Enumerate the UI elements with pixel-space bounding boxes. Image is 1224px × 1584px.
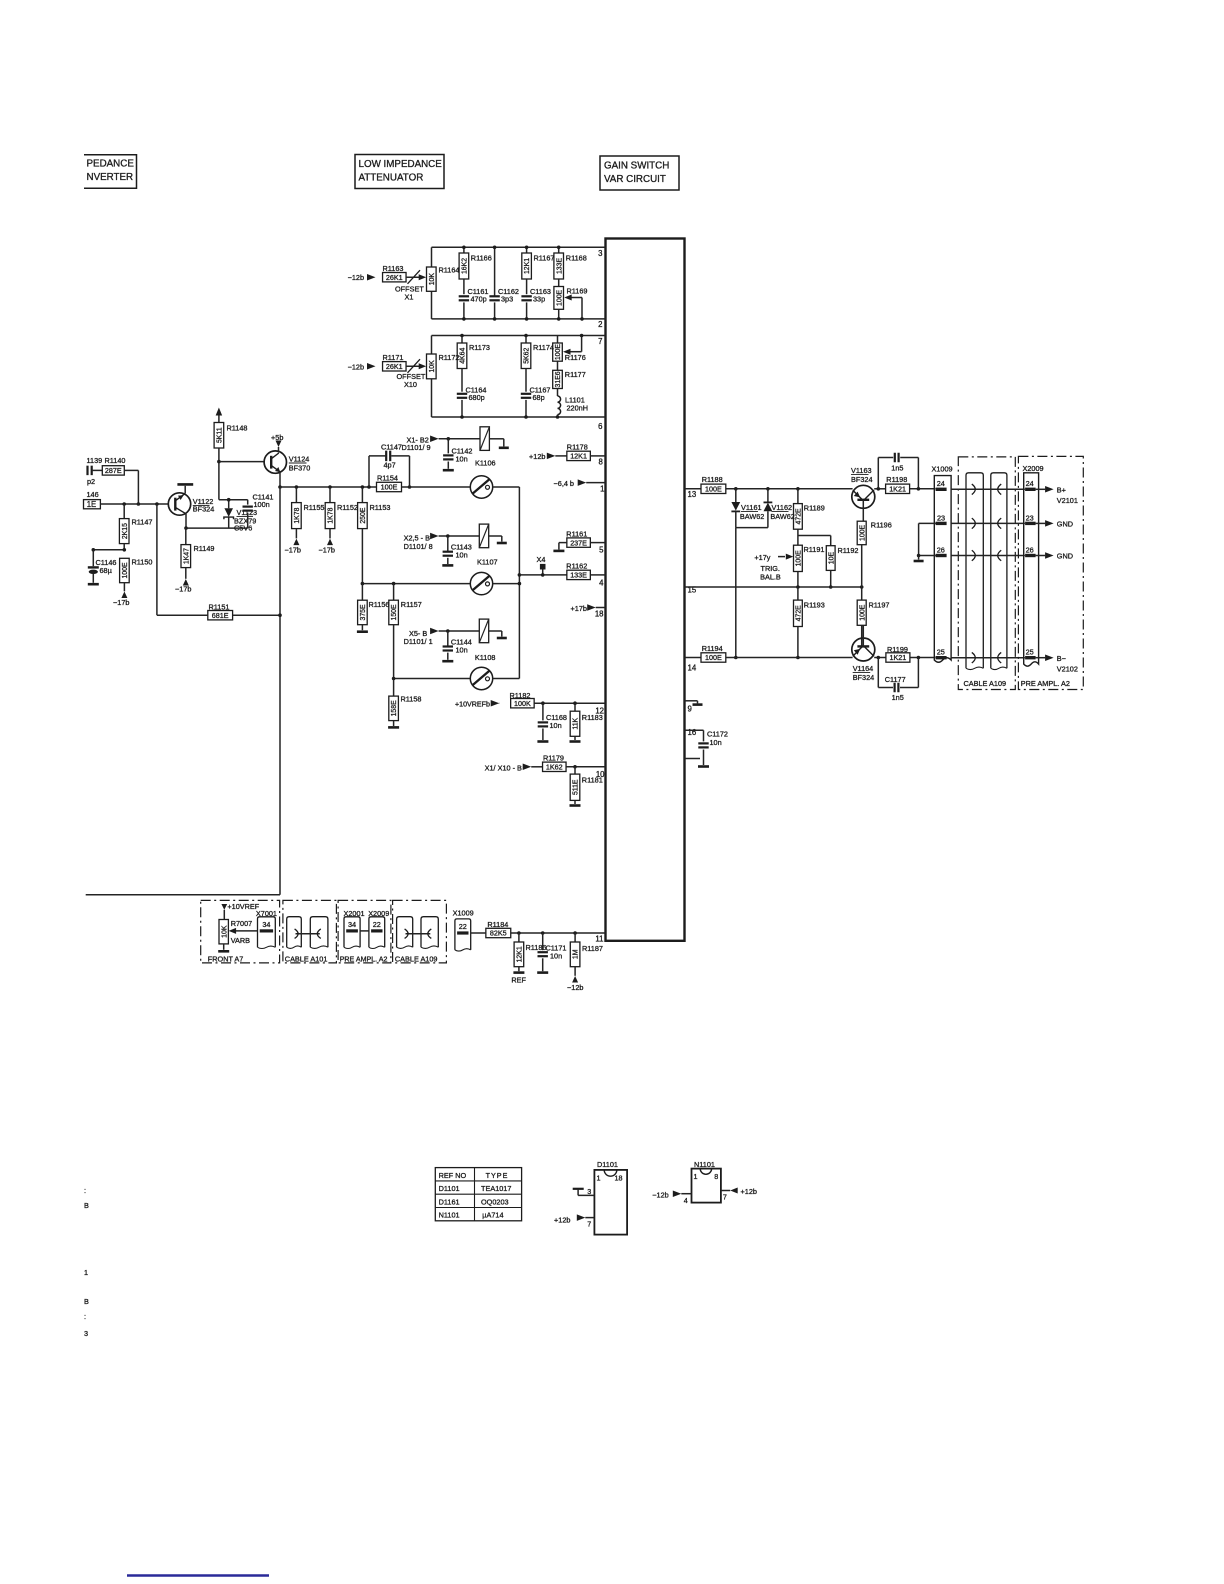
resistor R1140	[102, 466, 124, 475]
svg-text:V2102: V2102	[1057, 664, 1078, 673]
svg-text:5: 5	[599, 546, 604, 555]
svg-text:N1101: N1101	[694, 1160, 715, 1169]
svg-text:R1173: R1173	[469, 343, 490, 352]
resistor R1166	[463, 247, 465, 253]
svg-text:10n: 10n	[550, 721, 562, 730]
svg-text:25: 25	[937, 648, 945, 657]
svg-text:3p3: 3p3	[501, 295, 513, 304]
wire V1163 collector to X1009/24	[874, 488, 885, 490]
svg-text:R1157: R1157	[401, 600, 422, 609]
cable A109 tube right (bottom)	[421, 917, 438, 948]
svg-text:D1101/ 9: D1101/ 9	[402, 443, 431, 452]
wire R1157 row to switch3	[394, 678, 471, 680]
wire cable A101 link	[296, 933, 320, 935]
svg-text:R1164: R1164	[439, 266, 460, 275]
pre ampl A2 dash-dot box (bottom)	[338, 900, 391, 963]
svg-text:PRE AMPL. A2: PRE AMPL. A2	[340, 955, 388, 963]
svg-text:PEDANCE: PEDANCE	[87, 159, 135, 170]
capacitor C1164	[461, 369, 463, 392]
resistor R1191 TRIG BAL	[794, 545, 803, 571]
svg-text:82K5: 82K5	[490, 929, 507, 938]
svg-text:10K: 10K	[221, 925, 228, 938]
capacitor p2 (clipped)	[86, 466, 88, 476]
pin 7 N1101 +12b	[721, 1190, 730, 1192]
svg-text:D1101: D1101	[439, 1184, 460, 1193]
supply -17b below R1150	[121, 592, 127, 599]
resistor R1164	[427, 267, 437, 291]
svg-text:22: 22	[373, 920, 381, 929]
svg-text:237E: 237E	[570, 538, 587, 547]
svg-text:R1188: R1188	[702, 475, 723, 484]
supply -17b below R1149	[183, 579, 189, 586]
svg-text:NVERTER: NVERTER	[87, 172, 134, 183]
svg-text:R1167: R1167	[534, 254, 555, 263]
svg-text:V1164: V1164	[853, 664, 874, 673]
wire R1153 bottom row to switch2	[362, 583, 470, 585]
svg-text:X1009: X1009	[932, 464, 953, 473]
resistor R1196	[857, 521, 866, 545]
svg-text:N1101: N1101	[439, 1211, 460, 1220]
wire switch3 to right vertical	[493, 678, 520, 680]
wire R1188 to V1163 emitter	[726, 488, 853, 490]
cable tube left	[966, 473, 983, 669]
cable tube right	[991, 473, 1007, 669]
svg-text:+12b: +12b	[529, 452, 545, 461]
svg-text:680p: 680p	[469, 393, 485, 402]
svg-text:18: 18	[615, 1174, 623, 1183]
svg-text:100E: 100E	[705, 653, 722, 662]
capacitor C1167	[525, 369, 527, 392]
svg-text:14: 14	[688, 664, 697, 673]
svg-text:250E: 250E	[360, 507, 367, 523]
wire left vertical X10 network	[431, 336, 433, 355]
svg-text:220nH: 220nH	[567, 404, 589, 413]
svg-text:11: 11	[595, 935, 603, 944]
capacitor C1172 at pin 16	[685, 729, 704, 731]
svg-text:R1156: R1156	[369, 600, 390, 609]
wire cable row 23	[951, 522, 1025, 524]
wire rail to pin 6	[432, 416, 606, 418]
wire cable row 26	[951, 555, 1025, 557]
svg-text:12K1: 12K1	[524, 258, 531, 274]
svg-text:R1169: R1169	[567, 287, 588, 296]
svg-text:X10: X10	[404, 380, 417, 389]
svg-text:R1149: R1149	[194, 544, 215, 553]
svg-text:R1178: R1178	[567, 443, 588, 452]
svg-text:D1101: D1101	[597, 1160, 618, 1169]
svg-text:R1196: R1196	[871, 521, 892, 530]
svg-text:X1/ X10 - B: X1/ X10 - B	[485, 764, 522, 773]
svg-text:10E: 10E	[828, 552, 835, 565]
svg-text:R1183: R1183	[582, 713, 603, 722]
svg-text:X1009: X1009	[453, 908, 474, 917]
svg-text:+12b: +12b	[554, 1215, 570, 1224]
resistor R1197	[861, 587, 863, 600]
reference table REF NO / TYPE	[435, 1168, 521, 1221]
svg-text:1E: 1E	[87, 500, 97, 509]
svg-text:−6,4 b: −6,4 b	[554, 479, 575, 488]
capacitor C1141	[247, 500, 249, 505]
resistor R1169 with adjust arrow	[558, 279, 560, 287]
svg-text:287E: 287E	[105, 466, 122, 475]
svg-text:3: 3	[587, 1187, 591, 1196]
svg-text:V1163: V1163	[851, 466, 872, 475]
svg-text:R1176: R1176	[565, 353, 586, 362]
svg-text:13: 13	[688, 490, 697, 499]
svg-text:R1194: R1194	[702, 644, 723, 653]
svg-text:1K78: 1K78	[294, 507, 301, 523]
svg-text:BAL.B: BAL.B	[760, 572, 781, 581]
resistor R1173	[461, 336, 463, 344]
svg-text:8: 8	[598, 458, 602, 467]
resistor R1158	[393, 679, 395, 697]
svg-text:100E: 100E	[796, 550, 803, 566]
capacitor C1162	[494, 247, 496, 296]
svg-text:9: 9	[688, 705, 692, 714]
svg-text:34: 34	[262, 920, 270, 929]
resistor R1147	[123, 504, 125, 519]
svg-text:472E: 472E	[796, 508, 803, 524]
svg-text:100E: 100E	[859, 604, 866, 620]
svg-text:BF324: BF324	[851, 475, 873, 484]
supply +10VREF in front A7	[221, 904, 227, 910]
svg-text:BAW62: BAW62	[770, 512, 794, 521]
resistor R1150	[120, 558, 130, 582]
label box: GAIN SWITCH VAR CIRCUIT	[600, 156, 679, 190]
svg-text:BF324: BF324	[853, 673, 875, 682]
cable A101 tube left	[287, 917, 302, 948]
supply arrow above R1148	[216, 408, 223, 416]
relay coil K1108	[479, 619, 488, 643]
svg-text:23: 23	[937, 513, 945, 522]
capacitor C1161	[463, 279, 465, 294]
resistor R1189	[797, 489, 799, 504]
resistor R1181	[574, 767, 576, 774]
svg-text:VARB: VARB	[231, 936, 250, 945]
svg-text:R1161: R1161	[566, 529, 587, 538]
svg-text:16K2: 16K2	[462, 258, 469, 274]
svg-text:−17b: −17b	[319, 546, 335, 555]
wire R1189 bottom split to R1192	[798, 535, 831, 537]
wire pins 23-26 ground bracket	[919, 522, 936, 524]
svg-text:R1166: R1166	[471, 254, 492, 263]
svg-text:12K1: 12K1	[570, 452, 587, 461]
wire left vertical X1 network	[431, 247, 433, 267]
svg-text:1: 1	[84, 1268, 88, 1277]
svg-text:K1106: K1106	[475, 458, 496, 467]
wire V1122 emitter row	[185, 514, 187, 528]
relay coil K1106	[480, 427, 489, 451]
svg-text:BF370: BF370	[289, 464, 311, 473]
svg-text:PRE AMPL. A2: PRE AMPL. A2	[1021, 679, 1070, 688]
resistor R1167	[526, 247, 528, 253]
cable A101 tube right	[310, 917, 328, 948]
svg-text:1: 1	[694, 1172, 698, 1181]
svg-text:CABLE A101: CABLE A101	[285, 954, 328, 963]
resistor R1157	[393, 584, 395, 601]
svg-text:100n: 100n	[254, 500, 270, 509]
svg-text:681E: 681E	[212, 611, 229, 620]
svg-text:11K: 11K	[573, 717, 580, 729]
switch contact K1108	[470, 667, 492, 689]
svg-text:TEA1017: TEA1017	[481, 1184, 511, 1193]
svg-text:31E6: 31E6	[555, 371, 562, 387]
svg-text:1: 1	[597, 1174, 601, 1183]
svg-text:22: 22	[459, 922, 467, 931]
resistor R1186	[518, 933, 520, 942]
diode V1162	[767, 489, 769, 503]
svg-text:R1197: R1197	[869, 600, 890, 609]
resistor R1152	[328, 485, 332, 489]
svg-text:18: 18	[595, 610, 604, 619]
diode V1161	[735, 489, 737, 502]
svg-text:+17y: +17y	[754, 553, 770, 562]
svg-text:R1172: R1172	[439, 353, 460, 362]
svg-text:TYPE: TYPE	[486, 1171, 509, 1180]
svg-text:B: B	[84, 1201, 89, 1210]
svg-text:R1147: R1147	[132, 518, 153, 527]
svg-text:100E: 100E	[555, 344, 562, 360]
svg-text:12K1: 12K1	[517, 946, 524, 962]
potentiometer R7007 VARB	[219, 920, 228, 944]
svg-text:REF NO: REF NO	[439, 1171, 467, 1180]
svg-text:K1107: K1107	[477, 558, 498, 567]
capacitor C1144	[447, 631, 449, 646]
resistor R1193	[797, 587, 799, 600]
front A7 dash-dot box	[201, 900, 280, 963]
wire switch2 to right vertical	[493, 583, 520, 585]
transistor V1122	[168, 493, 190, 515]
svg-text:CABLE A109: CABLE A109	[964, 679, 1007, 688]
wire V1124 emitter to main row	[279, 472, 281, 487]
svg-text:C1177: C1177	[885, 675, 906, 684]
svg-text:p2: p2	[87, 477, 95, 486]
svg-text:68p: 68p	[533, 393, 545, 402]
svg-text:375E: 375E	[360, 604, 367, 620]
svg-text:+12b: +12b	[741, 1187, 757, 1196]
cable A109 dash-dot box (bottom)	[393, 900, 447, 963]
svg-text:100E: 100E	[556, 289, 563, 305]
wire R1154 to switch K1106 contact	[402, 486, 471, 488]
wire rail to pin 2	[432, 318, 606, 320]
capacitor C1142	[447, 439, 449, 454]
svg-text:OQ0203: OQ0203	[481, 1197, 509, 1206]
svg-text:B: B	[84, 1297, 89, 1306]
svg-text:10n: 10n	[456, 646, 468, 655]
svg-text:24: 24	[937, 479, 945, 488]
svg-text:R1163: R1163	[383, 264, 404, 273]
wire R1163 to R1164 with preset arrow	[406, 276, 423, 278]
wire input to V1122 base	[100, 503, 168, 505]
svg-text:R1153: R1153	[370, 503, 391, 512]
wire main row y487	[280, 486, 377, 488]
svg-text:R1177: R1177	[565, 370, 586, 379]
svg-text:GND: GND	[1057, 520, 1073, 529]
wire pin 15 row	[685, 586, 862, 588]
svg-text:R1174: R1174	[533, 343, 554, 352]
svg-text:7: 7	[587, 1220, 591, 1229]
svg-text:1K62: 1K62	[546, 763, 563, 772]
resistor R1156	[361, 584, 363, 601]
svg-text:4p7: 4p7	[384, 460, 396, 469]
wire R1182 to pin 12	[534, 702, 605, 704]
svg-text:−17b: −17b	[113, 598, 129, 607]
svg-text:2: 2	[598, 320, 602, 329]
inductor L1101	[557, 389, 559, 397]
svg-text:10K: 10K	[429, 273, 436, 286]
resistor R1192	[826, 546, 835, 571]
wire R1148 node to zener top	[218, 462, 220, 500]
svg-text:4: 4	[684, 1196, 688, 1205]
capacitor C1146 electrolytic	[92, 550, 94, 566]
svg-text:D1101/ 8: D1101/ 8	[404, 542, 433, 551]
wire R1171 to R1172 with preset arrow	[406, 365, 423, 367]
svg-text:R1154: R1154	[377, 473, 398, 482]
wire X5-B to relay coil	[439, 630, 480, 632]
svg-text:X4: X4	[537, 555, 546, 564]
svg-text:R7007: R7007	[231, 919, 253, 928]
svg-text:R1152: R1152	[337, 503, 358, 512]
resistor R1149	[185, 528, 187, 545]
svg-text:R1192: R1192	[838, 546, 859, 555]
svg-text:1K21: 1K21	[889, 485, 906, 494]
svg-text:BAW62: BAW62	[740, 512, 764, 521]
wire V1164 collector to X1009/25	[874, 657, 886, 659]
svg-text:470p: 470p	[471, 295, 487, 304]
svg-text:3: 3	[84, 1329, 88, 1338]
wire V1163 base to R1196	[862, 500, 864, 521]
capacitor C1171	[542, 933, 544, 950]
svg-text:1139: 1139	[87, 456, 103, 465]
wire cable row 24	[951, 488, 1025, 490]
svg-text:1K78: 1K78	[328, 507, 335, 523]
svg-text:R1158: R1158	[401, 695, 422, 704]
svg-text:LOW IMPEDANCE: LOW IMPEDANCE	[359, 159, 443, 170]
resistor R1174	[525, 336, 527, 344]
resistor R1176 with adjust arrow	[557, 336, 559, 344]
svg-text:−12b: −12b	[567, 983, 583, 992]
svg-text:REF: REF	[511, 976, 526, 985]
svg-text:472E: 472E	[796, 605, 803, 621]
supply -17b below R1155	[293, 539, 299, 546]
svg-text:−12b: −12b	[652, 1190, 668, 1199]
svg-text:R1171: R1171	[383, 353, 404, 362]
supply -17b below R1152	[327, 539, 333, 546]
svg-text::: :	[84, 1186, 86, 1195]
resistor R1187	[574, 933, 576, 942]
wire tap to X4 and R1162 to pin 4	[518, 573, 522, 577]
capacitor C1177 feedback lower	[877, 658, 879, 688]
svg-text:R1198: R1198	[886, 475, 907, 484]
svg-text:FRONT A7: FRONT A7	[208, 954, 244, 963]
svg-text:10n: 10n	[456, 454, 468, 463]
resistor R1153	[361, 485, 365, 489]
svg-text:33p: 33p	[533, 295, 545, 304]
svg-text:−12b: −12b	[348, 362, 364, 371]
svg-text:R1191: R1191	[804, 545, 825, 554]
svg-text:1n5: 1n5	[891, 463, 903, 472]
svg-text:24: 24	[1026, 479, 1034, 488]
transistor V1164	[852, 638, 875, 661]
svg-text:26K1: 26K1	[386, 362, 403, 371]
svg-text:7: 7	[723, 1193, 727, 1202]
svg-text:ATTENUATOR: ATTENUATOR	[359, 173, 424, 184]
svg-text:26: 26	[937, 546, 945, 555]
svg-text:1M: 1M	[573, 949, 580, 959]
svg-text:V1124: V1124	[289, 455, 310, 464]
wire R1147/R1150/C1146 node	[93, 549, 124, 551]
wire pin 13 row	[685, 488, 702, 490]
wire R1148 to V1124 base	[219, 461, 264, 463]
wire X1-B2 to relay coil	[439, 438, 480, 440]
zener diode V1123	[228, 500, 230, 509]
svg-text:6: 6	[598, 422, 602, 431]
svg-text:X1: X1	[405, 292, 414, 301]
svg-text:4: 4	[599, 579, 604, 588]
svg-text:1K21: 1K21	[890, 653, 907, 662]
svg-text:−12b: −12b	[348, 273, 364, 282]
svg-text:BF324: BF324	[193, 505, 215, 514]
svg-text:K1108: K1108	[475, 653, 496, 662]
svg-text:3: 3	[598, 249, 602, 258]
svg-text:100E: 100E	[381, 483, 398, 492]
svg-text:7: 7	[598, 337, 602, 346]
wire X2001 to X2009	[360, 930, 369, 932]
wire cable row 25	[951, 657, 1025, 659]
svg-text:R1193: R1193	[804, 600, 825, 609]
resistor R1168	[558, 247, 560, 253]
resistor R1172	[427, 354, 437, 379]
svg-text:D1101/ 1: D1101/ 1	[404, 637, 433, 646]
svg-text:100E: 100E	[859, 525, 866, 541]
svg-text:R1181: R1181	[582, 776, 603, 785]
wire cable A109 link (bottom)	[406, 933, 431, 935]
svg-text:−17b: −17b	[285, 546, 301, 555]
resistor R1177	[557, 361, 559, 370]
wiper arrow from X7001 to R7007	[236, 930, 258, 932]
wire X1009 to R1184	[471, 932, 486, 934]
svg-text:R1140: R1140	[105, 456, 126, 465]
footer rule (blue)	[127, 1574, 269, 1576]
svg-text:R1168: R1168	[566, 254, 587, 263]
svg-text:VAR CIRCUIT: VAR CIRCUIT	[604, 174, 666, 185]
svg-text:D1161: D1161	[439, 1197, 460, 1206]
svg-text:2K15: 2K15	[122, 523, 129, 539]
svg-text:26K1: 26K1	[386, 273, 403, 282]
svg-text:R1148: R1148	[227, 424, 248, 433]
wire R1140 to base node	[124, 469, 138, 471]
resistor 1E input (clipped)	[84, 500, 101, 509]
capacitor C1147 parallel loop	[367, 485, 371, 489]
switch contact K1106	[470, 476, 492, 498]
svg-text:10n: 10n	[456, 551, 468, 560]
pre ampl A2 dash-dot box	[1018, 456, 1083, 689]
resistor R1155	[295, 485, 299, 489]
svg-text:R1162: R1162	[566, 562, 587, 571]
svg-text:1K47: 1K47	[183, 548, 190, 564]
wire switch1 to right vertical	[493, 486, 520, 488]
svg-text:150E: 150E	[391, 604, 398, 620]
relay coil K1107	[479, 524, 488, 548]
svg-text:R1179: R1179	[543, 754, 564, 763]
svg-text:GND: GND	[1057, 552, 1073, 561]
wire rail to pin 3	[432, 246, 606, 248]
svg-text:26: 26	[1026, 546, 1034, 555]
switch contact K1107	[470, 572, 492, 594]
svg-text:23: 23	[1026, 513, 1034, 522]
svg-text:146: 146	[87, 490, 99, 499]
svg-text:GAIN SWITCH: GAIN SWITCH	[604, 161, 669, 172]
